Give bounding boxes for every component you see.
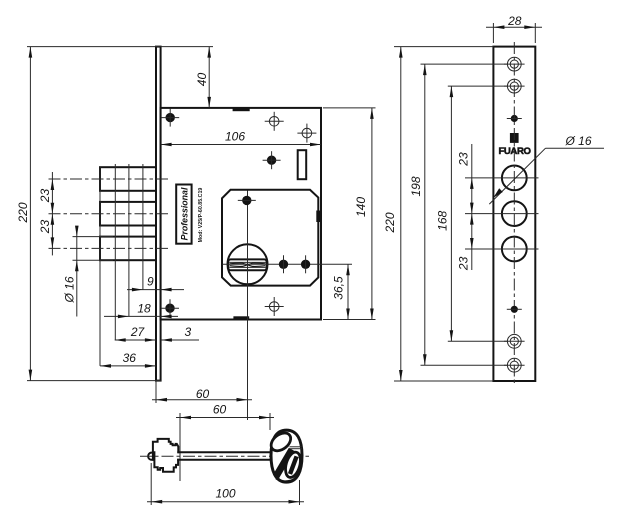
- dim 168: [450, 86, 452, 341]
- bolt hole circle 2: [465, 201, 539, 226]
- dim 3 (faceplate thickness): [161, 339, 199, 341]
- svg-text:106: 106: [225, 130, 245, 144]
- strike box rect: [298, 150, 307, 179]
- top latch notch: [233, 108, 250, 111]
- plate vertical centerline: [513, 42, 515, 386]
- extension line for dim 36: [99, 167, 101, 366]
- dim Ø16 leader right: [489, 148, 545, 204]
- dim 27: [115, 339, 156, 341]
- key bow inner bottom arc: [276, 478, 297, 481]
- bolt centerline 2: [49, 213, 170, 215]
- svg-text:Ø 16: Ø 16: [564, 134, 591, 148]
- svg-text:27: 27: [130, 325, 146, 339]
- dim 220 left: extension lines: [27, 46, 156, 48]
- key bow diagonal band: [276, 450, 292, 477]
- plate dot top: [507, 115, 522, 122]
- svg-text:3: 3: [184, 325, 191, 339]
- dim 60 lower: [179, 413, 181, 481]
- mechanism dot right 1: [279, 255, 288, 273]
- dim 18: [104, 315, 178, 317]
- dim 28 ext lines: [492, 23, 494, 43]
- Professional label: [176, 185, 204, 244]
- bolt 3: [100, 237, 156, 261]
- dim Ø16 left (bolt diameter): [73, 236, 114, 238]
- svg-text:Professional: Professional: [179, 187, 189, 240]
- svg-text:23: 23: [38, 189, 52, 204]
- key bit: [153, 439, 178, 472]
- key shaft: [178, 451, 269, 453]
- key bow small oval: [283, 450, 303, 479]
- dim 140: [323, 107, 376, 109]
- dim 23 pair left: dim line: [51, 172, 53, 255]
- svg-text:36,5: 36,5: [332, 276, 346, 300]
- cylinder vertical centerline: [247, 191, 249, 421]
- screw hole top B: [504, 79, 525, 93]
- dim 168 ext lines: [448, 85, 508, 87]
- svg-text:60: 60: [196, 387, 210, 401]
- lock case body: [161, 108, 321, 320]
- dim 220 right ext lines: [394, 46, 493, 48]
- dim 106: [161, 144, 321, 146]
- screw hole cross bottom: [265, 297, 284, 316]
- svg-text:220: 220: [16, 202, 30, 223]
- bottom latch notch: [233, 316, 249, 319]
- faceplate front: [493, 47, 535, 381]
- key tip cap: [148, 453, 153, 460]
- bolt 2: [100, 202, 156, 226]
- svg-text:40: 40: [195, 73, 209, 87]
- dim 9: [127, 289, 184, 291]
- keyhole slot: [228, 259, 266, 270]
- mechanism dot top: [238, 196, 256, 205]
- extension line for dim 9: [142, 164, 144, 290]
- extension line for dim 18: [128, 164, 130, 316]
- svg-text:198: 198: [409, 176, 423, 196]
- bolt hole circle 3: [465, 237, 539, 262]
- dim 23 pair right: [471, 144, 473, 270]
- dim 36,5: [347, 264, 349, 319]
- svg-text:18: 18: [137, 301, 151, 315]
- key bow hook loop: [268, 429, 294, 454]
- dim 28: [486, 26, 542, 28]
- bolt hole circle 1: [465, 166, 539, 191]
- key bow oval core: [290, 456, 297, 474]
- key centerline: [140, 455, 312, 457]
- svg-text:28: 28: [507, 14, 522, 28]
- dim 40: [156, 46, 213, 48]
- bolt centerline 1: [49, 178, 170, 180]
- faceplate side: [156, 47, 161, 381]
- dim 60 upper: [155, 381, 157, 403]
- svg-text:168: 168: [436, 210, 450, 230]
- dim 198 ext lines: [421, 63, 508, 65]
- svg-text:23: 23: [38, 220, 52, 235]
- cylinder circle: [228, 244, 268, 284]
- case dot upper-middle: [263, 151, 281, 169]
- dim 36: [100, 365, 156, 367]
- svg-text:220: 220: [383, 212, 397, 233]
- mechanism edge notch: [316, 211, 320, 223]
- svg-text:60: 60: [213, 403, 227, 417]
- svg-text:100: 100: [215, 487, 235, 501]
- svg-text:36: 36: [123, 351, 137, 365]
- screw hole cross top right: [297, 124, 316, 143]
- cylinder horizontal centerline: [223, 263, 353, 265]
- svg-text:Ø 16: Ø 16: [63, 276, 77, 303]
- svg-text:23: 23: [457, 152, 471, 167]
- extension line for dim 27: [114, 164, 116, 340]
- svg-text:FUARO: FUARO: [498, 146, 531, 157]
- dim 220 left: dim line: [29, 47, 31, 381]
- svg-text:140: 140: [354, 197, 368, 217]
- case dot bottom-left: [161, 299, 179, 317]
- dim 220 right: [400, 47, 402, 381]
- screw hole bottom D: [504, 358, 525, 372]
- dim 198: [424, 64, 426, 365]
- svg-text:23: 23: [457, 256, 471, 271]
- mechanism plate: [222, 190, 318, 286]
- bolt 1: [100, 167, 156, 191]
- svg-text:9: 9: [147, 275, 154, 289]
- bolt centerline 3: [49, 247, 170, 249]
- plate dot bottom: [507, 306, 522, 313]
- mechanism dot right 2: [301, 255, 310, 273]
- screw hole cross top: [265, 112, 284, 131]
- screw hole bottom C: [504, 334, 525, 348]
- key bow chord lines: [290, 446, 302, 448]
- dim 100: [150, 463, 152, 505]
- case dot top-left: [161, 109, 179, 127]
- screw hole top A: [504, 57, 525, 71]
- key bow outer ring: [271, 430, 302, 482]
- svg-text:Mod: V25/P-60.85.C19: Mod: V25/P-60.85.C19: [198, 188, 204, 243]
- FUARO logo: [498, 133, 531, 157]
